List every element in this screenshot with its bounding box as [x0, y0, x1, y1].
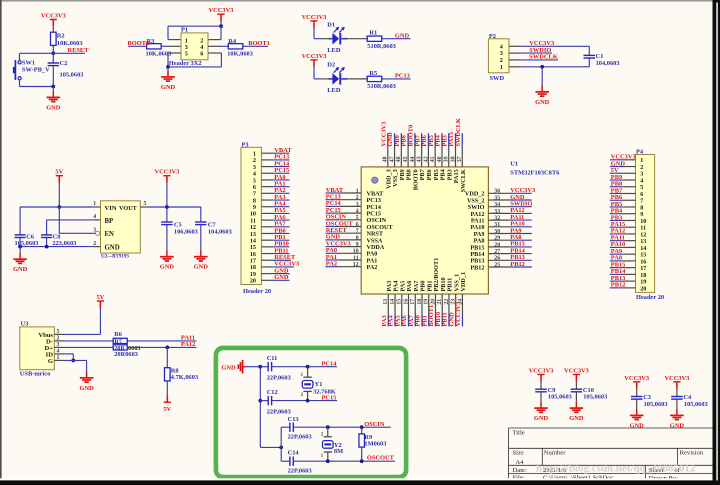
U1 pin 46 PB9 / net PB9	[400, 146, 402, 167]
svg-text:LED: LED	[327, 87, 341, 94]
node OSCIN/Y2 junction	[326, 425, 330, 429]
wire switch bottom to C2 bottom node	[19, 80, 21, 87]
svg-text:4: 4	[93, 214, 96, 220]
svg-text:6: 6	[200, 51, 203, 58]
svg-text:PC14: PC14	[322, 360, 338, 367]
wire R6 to net PA11	[127, 340, 196, 342]
wire P1 pin2 to VCC	[220, 26, 222, 39]
svg-text:10: 10	[353, 249, 359, 255]
svg-text:GND: GND	[535, 99, 550, 106]
U1 pin 21 PB10 / net PB10	[441, 294, 443, 315]
regulator U2 RT9193	[101, 201, 141, 253]
svg-text:5: 5	[57, 329, 60, 335]
wire P1 pin6 loop	[208, 52, 221, 54]
P3 pin 1 wire / net label VBAT	[261, 152, 273, 154]
svg-text:1M0603: 1M0603	[364, 441, 386, 448]
svg-text:GND: GND	[274, 274, 289, 281]
U1 pin 31 PA10 / net PA10	[488, 226, 509, 228]
resistor R8 4.7K,0603	[165, 368, 171, 381]
wire RESET row to switch	[20, 52, 54, 54]
svg-text:U2—RT9193: U2—RT9193	[101, 254, 129, 259]
svg-text:20: 20	[640, 285, 646, 292]
P3 pin 16 wire / net label PB11	[261, 253, 273, 255]
svg-text:C5: C5	[174, 221, 182, 228]
svg-text:SW1: SW1	[22, 60, 35, 67]
wire C11 to PC14	[272, 366, 337, 368]
capacitor C6 105,0603	[19, 207, 21, 235]
P3 pin 11 wire / net label PA6	[261, 219, 273, 221]
power flag VCC3V3 (LED D2)	[310, 59, 317, 61]
svg-text:SW-PB_V: SW-PB_V	[22, 67, 50, 74]
svg-text:LED: LED	[327, 47, 341, 54]
node VOUT junction	[165, 205, 169, 209]
P3 pin 10 wire / net label PA5	[261, 212, 273, 214]
wire VCC3V3 to D1	[313, 28, 315, 39]
wire D+ to R7	[64, 346, 114, 348]
U1 pin 9 VDDA / net VCC3V3	[340, 246, 361, 248]
U1 pin 4 PC15 / net PC15	[340, 212, 361, 214]
svg-text:PB12: PB12	[470, 264, 484, 271]
svg-text:20: 20	[430, 299, 436, 305]
svg-text:GND: GND	[161, 84, 176, 91]
U1 pin 7 NRST / net RESET	[340, 232, 361, 234]
U1 pin 18 PB0 / net PB0	[421, 294, 423, 315]
svg-text:VOUT: VOUT	[119, 205, 138, 212]
svg-text:R6: R6	[114, 331, 123, 338]
svg-text:45: 45	[403, 156, 409, 162]
node RESET junction	[51, 51, 55, 55]
U1 pin 11 PA1 / net PA1	[340, 259, 361, 261]
U1 pin 17 PA7 / net PA7	[414, 294, 416, 315]
svg-text:8M: 8M	[334, 448, 343, 455]
P4 pin 11 wire / net label PA15	[623, 226, 635, 228]
svg-text:4.7K,0603: 4.7K,0603	[171, 374, 198, 381]
svg-text:20R0603: 20R0603	[114, 351, 138, 358]
ground (SWD)	[541, 67, 543, 86]
svg-text:10K,0603: 10K,0603	[227, 50, 253, 57]
svg-text:BOOT1: BOOT1	[248, 40, 270, 47]
svg-text:G: G	[48, 358, 53, 365]
node P1 ground junction	[166, 65, 170, 69]
node C8 ground junction	[45, 245, 49, 249]
svg-text:GND: GND	[194, 264, 209, 271]
wire C13 to OSCIN	[293, 426, 391, 428]
svg-text:1: 1	[57, 355, 60, 361]
P4 pin 18 wire / net label PB14	[623, 273, 635, 275]
svg-text:5: 5	[185, 51, 188, 58]
net label RESET	[53, 52, 85, 54]
svg-text:Number: Number	[544, 450, 566, 457]
P3 pin 3 wire / net label PC14	[261, 166, 273, 168]
U1 pin 44 BOOT0 / net BOOT0	[414, 146, 416, 167]
node rail/C11 junction	[258, 365, 262, 369]
wire P2 pin1 ground row	[509, 66, 522, 68]
svg-text:PC15: PC15	[322, 394, 337, 401]
P4 pin 7 wire / net label PB6	[623, 199, 635, 201]
capacitor C11 22P,0603	[260, 366, 268, 368]
svg-text:16: 16	[403, 299, 409, 305]
svg-text:27: 27	[494, 249, 500, 255]
svg-text:R5: R5	[369, 70, 377, 77]
wire C14 to OSCOUT	[293, 460, 395, 462]
capacitor C7 104,0603	[200, 207, 202, 222]
svg-text:22P,0603: 22P,0603	[267, 374, 291, 381]
svg-text:PB12: PB12	[611, 282, 626, 289]
U1 pin 41 PB5 / net PB5	[434, 146, 436, 167]
svg-text:BOOT0: BOOT0	[128, 40, 150, 47]
wire VOUT row	[148, 206, 201, 208]
svg-text:105,0603: 105,0603	[548, 394, 572, 401]
wire D2 to R5	[348, 78, 367, 80]
svg-text:SWD: SWD	[490, 75, 505, 82]
node PC14/Y1 junction	[306, 365, 310, 369]
wire VCC3V3 to P1 junction	[220, 21, 222, 26]
capacitor C8 223,0603	[41, 234, 52, 236]
svg-text:5V: 5V	[55, 169, 63, 176]
title block	[509, 428, 715, 481]
wire C12 to PC15	[272, 400, 337, 402]
U2 pin 4	[93, 219, 101, 221]
svg-text:PA2: PA2	[326, 261, 337, 268]
svg-text:VCC3V3: VCC3V3	[529, 368, 554, 375]
P3 pin 15 wire / net label PB10	[261, 246, 273, 248]
wire D- to R6	[64, 340, 114, 342]
svg-text:105,0603: 105,0603	[684, 401, 708, 408]
svg-text:VCC3V3: VCC3V3	[564, 368, 589, 375]
wire P1 pin5 loop to ground	[168, 52, 181, 54]
svg-text:OSCOUT: OSCOUT	[367, 455, 395, 462]
node VIN junction	[57, 205, 61, 209]
wire P1 pin4 to R4	[208, 45, 221, 47]
svg-text:44: 44	[410, 156, 416, 162]
U1 pin 19 PB1 / net PB1	[428, 294, 430, 315]
svg-text:PA2: PA2	[367, 264, 378, 271]
U1 pin 37 SWCLK / net SWDCLK	[461, 146, 463, 167]
svg-text:105,0603: 105,0603	[644, 401, 668, 408]
ground (regulator input)	[19, 247, 21, 253]
wire Vbus to 5V	[64, 333, 101, 335]
U1 pin 23 VSS_1 / net GND	[455, 294, 457, 315]
U1 pin 28 PB15 / net PB15	[488, 246, 509, 248]
svg-text:46: 46	[396, 156, 402, 162]
svg-text:U1: U1	[510, 160, 518, 167]
wire regulator ground row	[20, 246, 93, 248]
capacitor C14 22P,0603	[281, 460, 290, 462]
U1 pin 15 PA5 / net PA5	[401, 294, 403, 315]
svg-text:R2: R2	[57, 32, 65, 39]
svg-text:VCC3V3: VCC3V3	[302, 14, 327, 21]
svg-text:106,0603: 106,0603	[174, 229, 198, 236]
svg-text:104,0603: 104,0603	[208, 229, 232, 236]
svg-text:30: 30	[494, 229, 500, 235]
power flag 5V (USB Vbus)	[97, 300, 104, 302]
svg-text:GND: GND	[105, 245, 120, 252]
P4 pin 14 wire / net label PA10	[623, 246, 635, 248]
resistor R4 10K,0603	[228, 44, 243, 49]
U1 pin 40 PB4 / net PB4	[441, 146, 443, 167]
net label GND (D1)	[382, 38, 411, 40]
svg-text:28: 28	[494, 242, 500, 248]
svg-text:5V: 5V	[163, 406, 171, 413]
wire P2 pin4 VCC3V3 row	[509, 45, 522, 47]
wire EN tie to VIN	[58, 207, 60, 233]
U1 pin 45 PB8 / net PB8	[407, 146, 409, 167]
svg-text:SWDCLK: SWDCLK	[529, 54, 557, 61]
svg-text:VCC3V3: VCC3V3	[41, 13, 66, 20]
U3 pin 3 D+	[54, 346, 63, 348]
resistor R7 20R0603	[113, 345, 127, 350]
svg-text:BP: BP	[105, 218, 114, 225]
svg-text:GND: GND	[395, 32, 410, 39]
power flag VCC3V3 (LED D1)	[310, 20, 317, 22]
U3 pin 1 G	[54, 359, 63, 361]
P3 pin 2 wire / net label PC13	[261, 159, 273, 161]
svg-text:47: 47	[389, 156, 395, 162]
wire VCC3V3 to R2	[52, 26, 54, 32]
svg-text:GND: GND	[160, 264, 175, 271]
svg-text:35: 35	[494, 195, 500, 201]
U1 pin 5 OSCIN / net OSCIN	[340, 219, 361, 221]
svg-text:12: 12	[353, 262, 359, 268]
capacitor C2 105,0603	[52, 53, 54, 63]
U1 pin 34 SWIO / net SWDIO	[488, 206, 509, 208]
P4 pin 12 wire / net label PA12	[623, 233, 635, 235]
resistor R2 10K,0603	[51, 32, 57, 45]
U1 pin 12 PA2 / net PA2	[340, 266, 361, 268]
svg-text:42: 42	[423, 156, 429, 162]
svg-text:STM32F103C8T6: STM32F103C8T6	[510, 170, 560, 177]
U1 pin 8 VSSA / net GND	[340, 239, 361, 241]
capacitor C3 105,0603	[636, 389, 638, 397]
ground (C7)	[200, 250, 202, 256]
svg-text:R4: R4	[228, 38, 237, 45]
svg-text:15: 15	[397, 299, 403, 305]
svg-text:6: 6	[356, 222, 359, 228]
svg-text:VDD_1: VDD_1	[460, 272, 467, 292]
svg-text:2: 2	[57, 336, 60, 342]
ground (C5)	[166, 250, 168, 256]
svg-text:PB12: PB12	[510, 261, 525, 268]
power flag VCC3V3 (C3)	[633, 381, 640, 383]
svg-text:D1: D1	[327, 21, 335, 28]
P4 pin 4 wire / net label PB9	[623, 179, 635, 181]
svg-text:C14: C14	[288, 450, 300, 457]
P4 pin 10 wire / net label PB3	[623, 219, 635, 221]
node C6 ground junction	[18, 245, 22, 249]
capacitor C5 106,0603	[166, 207, 168, 222]
svg-text:SWDCLK: SWDCLK	[455, 118, 462, 146]
ground (crystal, side-mounted)	[243, 366, 246, 368]
svg-text:4: 4	[57, 349, 60, 355]
power flag VCC3V3 (reset pull-up)	[50, 19, 57, 21]
svg-text:33: 33	[494, 209, 500, 215]
ground (USB)	[86, 372, 88, 378]
power flag VCC3V3 (C9)	[537, 374, 544, 376]
svg-text:29: 29	[494, 236, 500, 242]
U1 pin 1 VBAT / net VBAT	[340, 192, 361, 194]
U2 pin 1	[93, 206, 101, 208]
ground (C3)	[636, 409, 638, 415]
net label BOOT1	[243, 45, 268, 47]
ground (reset)	[52, 87, 54, 92]
wire rail to C13/C14 branch	[260, 446, 281, 448]
wire 5V to VIN row	[58, 183, 60, 208]
P4 pin 16 wire / net label PA8	[623, 260, 635, 262]
U1 pin 33 PA12 / net PA12	[488, 212, 509, 214]
power flag 5V (regulator input)	[56, 175, 63, 177]
U3 pin 5 Vbus	[54, 333, 63, 335]
U1 pin 13 PA3 / net PA3	[387, 294, 389, 315]
U1 pin 48 VDD_3 / net VCC3V3	[387, 146, 389, 167]
svg-text:VCC3V3: VCC3V3	[664, 375, 689, 382]
wire P2 pin2 SWDCLK	[509, 59, 522, 61]
svg-text:34: 34	[494, 202, 500, 208]
svg-text:C1: C1	[596, 53, 604, 60]
svg-text:22: 22	[444, 299, 450, 305]
svg-text:43: 43	[417, 156, 423, 162]
P4 pin 3 wire / net label 5V	[623, 172, 635, 174]
U1 pin 29 PA8 / net PA8	[488, 239, 509, 241]
U1 pin 36 VDD_2 / net VCC3V3	[488, 192, 509, 194]
svg-text:C11: C11	[267, 355, 278, 362]
svg-text:18: 18	[417, 299, 423, 305]
U2 pin 5	[140, 206, 148, 208]
svg-text:40: 40	[437, 156, 443, 162]
U1 pin 38 PA15 / net PA15	[455, 146, 457, 167]
MCU U1 STM32F103C8T6 body	[361, 167, 488, 294]
U1 pin 10 PA0 / net PA0	[340, 252, 361, 254]
capacitor C12 22P,0603	[260, 400, 268, 402]
U1 pin 2 PC13 / net PC13	[340, 199, 361, 201]
P4 pin 19 wire / net label PB13	[623, 280, 635, 282]
U1 pin 24 VDD_1 / net VCC3V3	[461, 294, 463, 315]
svg-text:5: 5	[144, 201, 147, 207]
resistor R9 1M0603	[361, 427, 363, 434]
P3 pin 19 wire / net label GND	[261, 273, 273, 275]
svg-text:PC13: PC13	[395, 73, 410, 80]
crystal Y1 32.768K	[307, 367, 309, 378]
svg-text:A4: A4	[515, 459, 524, 466]
P4 pin 17 wire / net label PB15	[623, 267, 635, 269]
U1 pin 14 PA4 / net PA4	[394, 294, 396, 315]
U1 pin 22 PB11 / net PB11	[448, 294, 450, 315]
svg-text:22P,0603: 22P,0603	[267, 409, 291, 416]
wire VCC3V3 to D2	[313, 67, 315, 79]
svg-text:7: 7	[356, 229, 359, 235]
P3 pin 9 wire / net label PA4	[261, 206, 273, 208]
resistor R5 510R,0603	[367, 76, 382, 81]
U1 pin 32 PA11 / net PA11	[488, 219, 509, 221]
svg-text:GND: GND	[569, 415, 584, 422]
P4 pin 8 wire / net label PB5	[623, 206, 635, 208]
svg-text:GND: GND	[13, 266, 28, 273]
U1 pin 25 PB12 / net PB12	[488, 266, 509, 268]
ground (C9)	[540, 402, 542, 408]
svg-text:VCC3V3: VCC3V3	[624, 375, 649, 382]
power flag VCC3V3 (C10)	[573, 374, 580, 376]
svg-text:14: 14	[390, 299, 396, 305]
resistor R3 10K,0603	[147, 44, 162, 49]
svg-text:VCC3V3: VCC3V3	[154, 169, 179, 176]
U1 pin 3 PC14 / net PC14	[340, 205, 361, 207]
P4 pin 5 wire / net label PB8	[623, 186, 635, 188]
P3 pin 18 wire / net label VCC3V3	[261, 266, 273, 268]
svg-text:3: 3	[93, 228, 96, 234]
svg-text:22P,0603: 22P,0603	[288, 468, 312, 475]
svg-text:10K,0603: 10K,0603	[146, 50, 172, 57]
svg-text:D2: D2	[327, 62, 335, 69]
svg-text:R1: R1	[369, 30, 377, 37]
svg-text:1: 1	[500, 64, 503, 71]
node rail/C12 junction	[258, 399, 262, 403]
svg-text:37: 37	[457, 156, 463, 162]
svg-text:5: 5	[356, 215, 359, 221]
svg-text:GND: GND	[221, 364, 236, 371]
node ID/G junction	[71, 359, 75, 363]
capacitor C9 105,0603	[540, 381, 542, 389]
capacitor C10 105,0603	[575, 381, 577, 389]
U1 pin 16 PA6 / net PA6	[408, 294, 410, 315]
P4 pin 15 wire / net label PA9	[623, 253, 635, 255]
U1 pin 27 PB14 / net PB14	[488, 253, 509, 255]
svg-text:510R,0603: 510R,0603	[367, 83, 396, 90]
wire R7 to net PA12	[127, 346, 196, 348]
svg-text:3: 3	[57, 342, 60, 348]
svg-text:105,0603: 105,0603	[60, 71, 84, 78]
U2 pin 2	[93, 246, 101, 248]
svg-text:24: 24	[457, 299, 463, 305]
node PC15/Y1 junction	[306, 399, 310, 403]
svg-text:SWCLK: SWCLK	[460, 169, 467, 192]
svg-text:Date:: Date:	[513, 467, 527, 474]
crystal Y2 8M	[327, 427, 329, 437]
svg-text:1: 1	[356, 188, 359, 194]
wire ground to rail	[246, 366, 260, 368]
svg-text:C7: C7	[208, 221, 217, 228]
U1 pin 47 VSS_3 / net GND	[394, 146, 396, 167]
U1 pin-1 marker dot	[372, 177, 378, 183]
U1 pin 42 PB6 / net PB6	[427, 146, 429, 167]
svg-text:EN: EN	[105, 231, 115, 238]
svg-text:Revision: Revision	[680, 450, 704, 457]
P4 pin 6 wire / net label PB7	[623, 193, 635, 195]
U3 pin 2 D-	[54, 340, 63, 342]
power flag 5V (USB pull-up)	[164, 401, 171, 403]
svg-text:OSCIN: OSCIN	[364, 421, 385, 428]
svg-text:2: 2	[356, 195, 359, 201]
svg-text:C12: C12	[267, 389, 278, 396]
wire R2 to RESET node	[52, 45, 54, 49]
svg-text:Header 3X2: Header 3X2	[169, 60, 202, 67]
switch SW1 SW-PB_V	[18, 61, 21, 64]
svg-text:RESET: RESET	[68, 47, 90, 54]
svg-text:VCC3V3: VCC3V3	[209, 7, 234, 14]
ground (C10)	[575, 402, 577, 408]
ground (boot header)	[167, 67, 169, 71]
wire BP to C8	[47, 219, 93, 221]
wire VCC3V3 to VOUT row	[166, 183, 168, 208]
svg-text:9: 9	[356, 242, 359, 248]
P4 pin 20 wire / net label PB12	[623, 287, 635, 289]
node C13/C14 branch junction	[279, 446, 283, 450]
P3 pin 20 wire / net label GND	[261, 279, 273, 281]
svg-text:4: 4	[356, 209, 359, 215]
wire ground rail vertical	[259, 367, 261, 448]
node P1 top junction	[219, 24, 223, 28]
svg-text:C13: C13	[288, 416, 299, 423]
node OSCOUT/R9 junction	[360, 459, 364, 463]
resistor R1 510R,0603	[367, 36, 382, 41]
